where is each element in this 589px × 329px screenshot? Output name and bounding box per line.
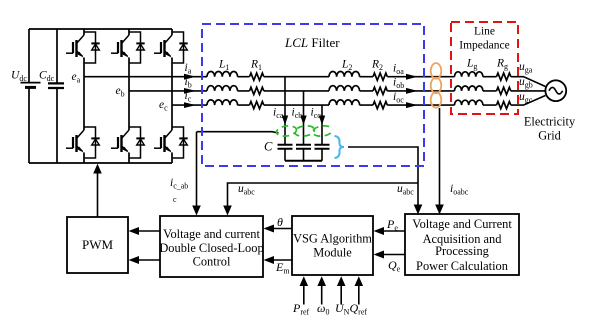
svg-text:ugc: ugc xyxy=(519,91,533,105)
svg-text:Control: Control xyxy=(193,255,231,269)
svg-text:icb: icb xyxy=(292,107,303,121)
svg-text:Double Closed-Loop: Double Closed-Loop xyxy=(159,241,263,255)
svg-text:ioc: ioc xyxy=(393,91,404,105)
svg-text:Lg: Lg xyxy=(466,58,477,72)
svg-text:iob: iob xyxy=(393,77,404,91)
svg-text:Voltage and Current: Voltage and Current xyxy=(412,217,512,231)
svg-text:Power Calculation: Power Calculation xyxy=(416,259,508,273)
svg-text:PWM: PWM xyxy=(82,237,114,252)
svg-text:ea: ea xyxy=(72,71,81,85)
svg-text:Pe: Pe xyxy=(386,217,398,233)
svg-text:ec: ec xyxy=(159,99,168,113)
svg-text:ica: ica xyxy=(273,107,284,121)
svg-text:Em: Em xyxy=(275,260,290,276)
svg-text:C: C xyxy=(264,140,273,154)
svg-text:Electricity: Electricity xyxy=(524,115,576,129)
svg-text:ic_ab: ic_ab xyxy=(170,177,188,191)
svg-text:uabc: uabc xyxy=(397,183,414,197)
svg-text:ia: ia xyxy=(185,62,192,76)
svg-text:R2: R2 xyxy=(371,59,383,73)
svg-text:Qe: Qe xyxy=(388,258,401,274)
svg-text:Impedance: Impedance xyxy=(459,40,509,52)
svg-text:θ: θ xyxy=(277,215,283,229)
svg-text:uga: uga xyxy=(519,61,533,75)
svg-text:ioa: ioa xyxy=(393,63,404,77)
svg-text:Cdc: Cdc xyxy=(39,70,55,84)
svg-text:LCL Filter: LCL Filter xyxy=(284,35,340,50)
svg-text:UN: UN xyxy=(335,301,350,317)
svg-text:L1: L1 xyxy=(218,59,229,73)
svg-text:ω0: ω0 xyxy=(317,301,329,317)
svg-text:Rg: Rg xyxy=(496,58,508,72)
svg-text:Voltage and current: Voltage and current xyxy=(163,227,260,241)
svg-text:VSG Algorithm: VSG Algorithm xyxy=(293,232,372,246)
svg-text:R1: R1 xyxy=(250,59,262,73)
svg-text:Pref: Pref xyxy=(292,301,310,317)
svg-text:Processing: Processing xyxy=(435,244,489,258)
svg-text:ioabc: ioabc xyxy=(450,183,469,197)
svg-text:eb: eb xyxy=(116,85,125,99)
svg-text:Udc: Udc xyxy=(11,70,27,84)
svg-text:L2: L2 xyxy=(341,59,352,73)
svg-text:uabc: uabc xyxy=(238,183,255,197)
svg-text:Grid: Grid xyxy=(538,129,561,143)
svg-text:c: c xyxy=(173,195,177,204)
svg-text:Module: Module xyxy=(313,246,352,260)
svg-text:Line: Line xyxy=(474,26,495,38)
svg-text:icc: icc xyxy=(311,107,322,121)
